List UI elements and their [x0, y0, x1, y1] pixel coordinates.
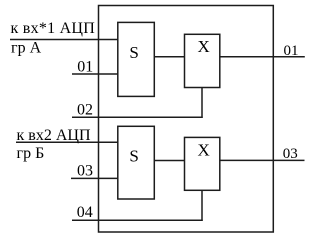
svg-text:01: 01 — [77, 59, 93, 76]
svg-text:04: 04 — [77, 204, 93, 221]
wire: vertical drop from X1 bottom to 02 line — [201, 87, 203, 118]
svg-text:X: X — [198, 37, 210, 56]
outer block boundary box — [99, 6, 274, 233]
svg-text:гр А: гр А — [11, 39, 42, 56]
wire: S1 output to X1 — [154, 56, 184, 58]
block X1 (multiplier, top) — [185, 34, 220, 87]
wire: X1 output to right edge 01 — [220, 56, 305, 58]
svg-text:01: 01 — [284, 43, 299, 59]
block X2 (multiplier, bottom) — [185, 137, 220, 190]
wire: input "к вх2 АЦП" to S2 — [16, 141, 118, 143]
wire: X2 output to right edge 03 — [220, 159, 305, 161]
svg-text:S: S — [129, 147, 138, 166]
svg-text:03: 03 — [283, 146, 298, 162]
wire: vertical drop from X2 bottom to 04 line — [201, 190, 203, 221]
svg-text:X: X — [198, 140, 210, 159]
wire: input 02 horizontal run — [72, 116, 203, 118]
wire: S2 output to X2 — [154, 160, 184, 162]
wire: input "к вх*1 АЦП" to S1 — [10, 39, 118, 41]
svg-text:03: 03 — [77, 163, 93, 180]
block S1 (sampler, group A) — [118, 22, 155, 96]
wire: input 03 to S2 — [71, 177, 118, 179]
wire: input 04 horizontal run — [72, 219, 203, 221]
svg-text:гр Б: гр Б — [17, 145, 45, 162]
svg-text:02: 02 — [77, 102, 93, 119]
svg-text:к вх*1 АЦП: к вх*1 АЦП — [11, 20, 96, 37]
svg-text:S: S — [129, 43, 138, 62]
wire: input 01 to S1 — [72, 73, 118, 75]
svg-text:к вх2 АЦП: к вх2 АЦП — [17, 127, 91, 144]
block S2 (sampler, group B) — [118, 126, 155, 199]
